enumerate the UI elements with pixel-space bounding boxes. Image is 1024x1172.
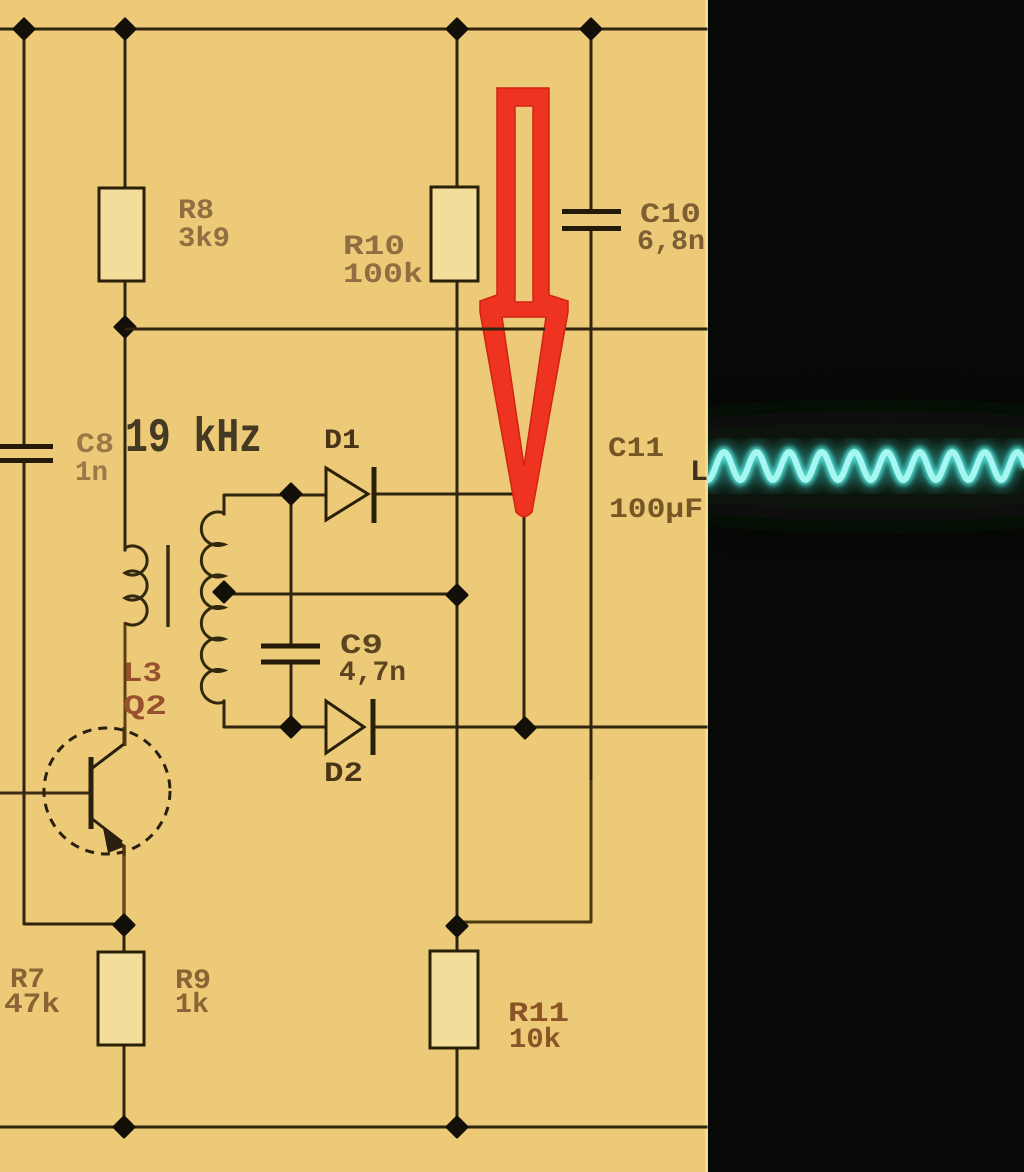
transformer secondary coil xyxy=(201,512,224,703)
wire bus y329 left segment (over probe left leg) xyxy=(125,328,545,331)
diode D1 xyxy=(326,467,374,523)
wire transformer center tap to bus xyxy=(226,593,456,596)
wire R11 top xyxy=(456,926,459,952)
capacitor C10 xyxy=(562,212,621,229)
resistor R10 xyxy=(431,187,478,281)
svg-text:1k: 1k xyxy=(175,990,209,1021)
oscilloscope black background xyxy=(708,0,1024,1172)
waveform trace core xyxy=(704,452,1024,480)
wire R8 bottom to node xyxy=(124,280,127,328)
inductor L3 primary coil xyxy=(125,546,147,625)
svg-text:6,8n: 6,8n xyxy=(637,227,705,258)
capacitor C9 xyxy=(261,646,320,662)
wire probe tap vertical xyxy=(523,508,526,727)
probe red marker xyxy=(480,88,568,517)
wire top supply rail xyxy=(0,28,706,31)
svg-text:R8: R8 xyxy=(178,196,214,227)
resistor R9 xyxy=(98,952,144,1045)
wire C9 top lead xyxy=(290,494,293,644)
wire C9 bottom lead xyxy=(290,664,293,727)
svg-text:4,7n: 4,7n xyxy=(339,658,406,689)
svg-text:100µF: 100µF xyxy=(609,495,703,526)
svg-text:19 kHz: 19 kHz xyxy=(125,412,262,466)
wire bottom ground rail xyxy=(0,1126,706,1129)
transistor Q2 xyxy=(44,727,170,856)
resistor R11 xyxy=(430,951,478,1048)
wire C10 bottom long vertical xyxy=(590,229,593,780)
wire Q2 base from R7 (off-page) xyxy=(0,792,89,795)
waveform trace mid xyxy=(704,452,1024,480)
wire R10 top xyxy=(456,29,459,188)
wire R9 bottom xyxy=(123,1044,126,1126)
svg-text:Q2: Q2 xyxy=(123,692,167,723)
wire R11 bottom xyxy=(456,1047,459,1126)
wire secondary bottom to D2 anode xyxy=(224,701,323,727)
svg-text:L3: L3 xyxy=(123,659,162,690)
wire D1 cathode to probe point xyxy=(378,493,516,496)
wire R9 top xyxy=(123,925,126,953)
paper light edge xyxy=(705,0,708,1172)
wire bus y329 right segment xyxy=(563,328,706,331)
wire secondary top to D1 anode xyxy=(224,495,323,514)
waveform traces xyxy=(704,452,1024,480)
wire Q2 emitter to node xyxy=(122,845,126,925)
svg-text:D2: D2 xyxy=(324,759,363,790)
wire C10 top xyxy=(590,29,593,212)
diode D2 xyxy=(326,699,373,755)
svg-text:R10: R10 xyxy=(343,232,405,263)
svg-text:1n: 1n xyxy=(75,458,108,489)
wire node to L3 top xyxy=(124,329,127,550)
wire R8 top xyxy=(124,29,127,189)
svg-text:C8: C8 xyxy=(76,430,114,461)
svg-text:D1: D1 xyxy=(324,426,360,457)
svg-text:47k: 47k xyxy=(4,990,60,1021)
scope glow band xyxy=(520,411,1024,521)
wire D2 cathode to scope xyxy=(377,726,706,729)
wire L3 bottom to Q2 collector xyxy=(124,622,127,746)
schematic paper background xyxy=(0,0,708,1172)
wire left rail lower with corner to emitter node xyxy=(24,462,124,924)
wire C10 line lower corner to R11 node xyxy=(459,780,591,922)
svg-text:C11: C11 xyxy=(608,434,664,465)
svg-text:10k: 10k xyxy=(509,1025,561,1056)
resistor R8 xyxy=(99,188,144,281)
svg-text:3k9: 3k9 xyxy=(178,224,230,255)
svg-text:L: L xyxy=(690,456,708,490)
wire left rail upper (to C8) xyxy=(23,29,26,445)
capacitor C8 xyxy=(0,447,53,461)
wire R10 bottom long vertical to R11 node xyxy=(456,280,459,926)
svg-text:100k: 100k xyxy=(343,260,423,291)
transformer core xyxy=(166,545,170,627)
